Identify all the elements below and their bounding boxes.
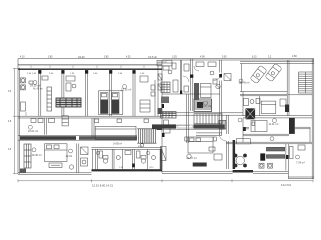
svg-text:7.34 m²: 7.34 m²	[296, 161, 305, 165]
svg-text:4.10: 4.10	[20, 57, 25, 59]
svg-text:4.20: 4.20	[126, 57, 131, 59]
svg-text:6.44 3.10: 6.44 3.10	[281, 184, 292, 187]
svg-text:6.15: 6.15	[252, 57, 257, 59]
svg-text:12.01: 12.01	[66, 154, 73, 158]
svg-text:AL 45 rm: AL 45 rm	[33, 88, 43, 91]
svg-text:16.67 m²: 16.67 m²	[201, 104, 211, 108]
svg-text:3.25: 3.25	[172, 56, 177, 59]
svg-text:2.80: 2.80	[292, 55, 297, 58]
svg-text:11.11 m²: 11.11 m²	[269, 122, 279, 126]
svg-text:16.45 m²: 16.45 m²	[32, 153, 42, 157]
svg-text:Ch 5 ch: Ch 5 ch	[148, 55, 157, 59]
svg-text:23.43: 23.43	[78, 55, 85, 59]
svg-text:12.51 8.90 14.21: 12.51 8.90 14.21	[92, 184, 113, 188]
svg-text:14.85 m²: 14.85 m²	[113, 143, 122, 146]
svg-text:3.85: 3.85	[104, 57, 109, 59]
svg-text:3.85: 3.85	[48, 57, 53, 59]
svg-text:23.25 m²: 23.25 m²	[121, 87, 131, 91]
svg-text:5.05: 5.05	[222, 57, 227, 59]
svg-text:4.90: 4.90	[200, 56, 205, 59]
svg-text:2.04 1.80: 2.04 1.80	[27, 73, 37, 75]
svg-text:21.87 m²: 21.87 m²	[187, 156, 197, 160]
svg-text:12.34 m²: 12.34 m²	[158, 61, 167, 64]
svg-text:10.01 m²: 10.01 m²	[28, 129, 38, 133]
svg-text:29.15 m²: 29.15 m²	[30, 84, 40, 88]
